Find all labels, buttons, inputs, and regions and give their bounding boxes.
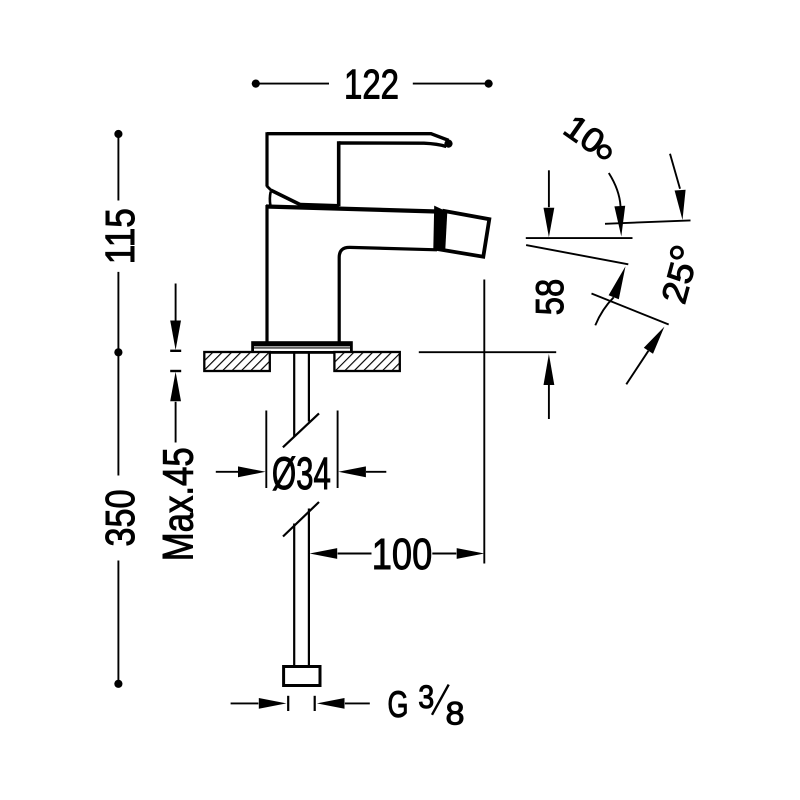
svg-text:350: 350	[97, 490, 143, 547]
dim 115 line upper	[117, 134, 119, 201]
handle riser vertical (back of lever to body top)	[337, 141, 341, 206]
base flange rect	[253, 343, 352, 353]
dim Max.45 lower arrowhead	[170, 372, 181, 402]
countertop left hatched section	[204, 352, 269, 371]
25deg second line	[592, 294, 669, 325]
vertical reference line from aerator	[483, 280, 485, 564]
svg-text:Ø34: Ø34	[272, 448, 331, 499]
10deg arc arrow	[609, 173, 621, 206]
svg-text:8: 8	[446, 695, 465, 731]
spout end face thick band	[433, 206, 447, 252]
handle notch kink	[267, 186, 272, 191]
dim G3/8 left arrow	[231, 702, 259, 704]
dim 100 left arrow	[310, 548, 338, 559]
fraction slash	[432, 685, 449, 715]
base flange inner seam line	[254, 347, 350, 349]
base flange thick top edge	[252, 342, 353, 346]
dim O34 right extension line	[337, 411, 339, 489]
supply pipe left line upper	[293, 353, 295, 437]
dim 350 bottom dot	[114, 680, 122, 688]
10deg right leg arrow	[670, 154, 680, 189]
25deg arc arrow to spout axis end	[595, 297, 613, 325]
dim 350 line lower	[117, 561, 119, 684]
dim 115 line lower	[117, 272, 119, 352]
cartridge arc below notch	[269, 192, 272, 206]
handle left edge	[265, 132, 268, 186]
upper short reference line	[605, 220, 691, 223]
svg-text:Max.45: Max.45	[156, 447, 203, 561]
dim Max.45 tick bottom	[170, 370, 181, 372]
dim Max.45 lower arrow shaft	[175, 402, 177, 443]
handle lever top edge with tip hook	[267, 134, 449, 141]
dim O34 left extension line	[265, 411, 267, 489]
supply pipe right line upper	[308, 353, 310, 422]
dim 115/350 top dot	[114, 130, 122, 138]
dim 58 up arrow	[544, 354, 555, 385]
dim 122 left line	[256, 83, 329, 85]
svg-text:122: 122	[344, 60, 399, 107]
dim Max.45 tick top	[170, 350, 181, 352]
svg-text:115: 115	[97, 208, 143, 264]
countertop right hatched section	[334, 352, 399, 371]
spout horizontal reference line	[526, 237, 633, 239]
dim 350 line upper	[117, 352, 119, 475]
dim 122 right line	[413, 83, 489, 85]
handle bottom diagonal to body top	[271, 190, 302, 205]
dim O34 left arrow	[216, 471, 239, 473]
pipe end connector rect	[284, 667, 320, 686]
dim O34 right arrow	[338, 466, 366, 477]
dim 58 down arrow	[548, 170, 550, 207]
body left edge	[265, 205, 268, 342]
svg-text:58: 58	[529, 279, 572, 316]
spout axis 10deg line	[526, 245, 628, 264]
dim 100 right arrow	[432, 553, 456, 555]
countertop level reference line	[419, 351, 556, 353]
handle lever underside line	[339, 143, 447, 147]
dim G3/8 right arrow	[317, 698, 345, 709]
dim Max.45 upper arrowhead	[170, 321, 181, 351]
supply pipe left line lower	[293, 524, 295, 668]
degree circle of 25	[671, 247, 682, 258]
svg-text:100: 100	[372, 530, 433, 579]
dim mid dot	[114, 348, 122, 356]
handle tip rounded cap	[444, 140, 452, 148]
dim Max.45 upper arrow shaft	[175, 284, 177, 322]
dim 122 left dot	[252, 80, 260, 88]
aerator tilted square	[438, 211, 489, 257]
body top line (slightly sloped)	[266, 207, 441, 212]
thick overlap segment where lever rests on body	[301, 206, 339, 207]
dim 122 right dot	[485, 80, 493, 88]
pipe break mark lower	[283, 502, 319, 537]
svg-text:G: G	[388, 684, 409, 725]
spout underside and inner corner down to base	[339, 247, 437, 342]
dim G3/8 right tick	[314, 696, 316, 711]
pipe break mark upper	[283, 413, 319, 447]
dim G3/8 left tick	[287, 696, 289, 711]
supply pipe right line lower	[308, 509, 310, 668]
25deg lower arrow	[626, 351, 648, 385]
degree circle of 10	[598, 146, 610, 158]
svg-text:3: 3	[418, 679, 434, 715]
